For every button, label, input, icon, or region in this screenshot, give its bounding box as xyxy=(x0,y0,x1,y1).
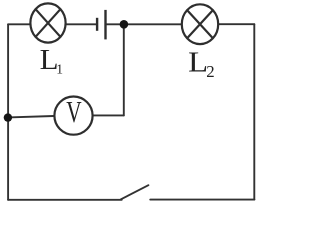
svg-text:V: V xyxy=(66,95,81,129)
svg-text:1: 1 xyxy=(56,62,63,77)
svg-text:L: L xyxy=(188,47,208,79)
svg-text:2: 2 xyxy=(206,62,214,81)
